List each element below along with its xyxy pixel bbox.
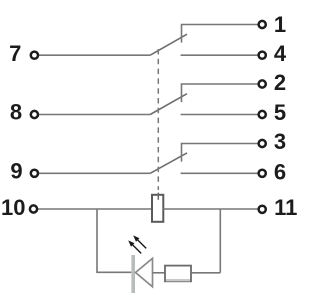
pole 1 NO bracket xyxy=(182,25,259,43)
terminal 10 circle xyxy=(30,205,37,212)
svg-text:6: 6 xyxy=(274,160,286,185)
svg-text:5: 5 xyxy=(274,100,286,125)
terminal 4 circle xyxy=(259,52,266,59)
coil K1 xyxy=(152,195,163,222)
terminal 11 circle xyxy=(259,206,266,213)
pole 3 common wire from terminal 9 xyxy=(39,172,150,174)
pole 1 NC wire to terminal 4 xyxy=(181,54,258,56)
svg-text:2: 2 xyxy=(274,70,286,95)
svg-text:1: 1 xyxy=(274,12,286,37)
svg-text:8: 8 xyxy=(10,100,22,125)
coil wire to terminal 11 xyxy=(163,208,257,210)
terminal 9 circle xyxy=(31,170,38,177)
svg-text:4: 4 xyxy=(274,41,287,66)
svg-text:10: 10 xyxy=(1,195,25,220)
terminal 8 circle xyxy=(31,111,38,118)
resistor R1 xyxy=(165,266,191,282)
LED triangle D1 xyxy=(136,258,153,287)
terminal 7 circle xyxy=(31,52,38,59)
mechanical link tick into coil xyxy=(157,193,159,200)
svg-text:7: 7 xyxy=(9,41,21,66)
pole 3 NO bracket xyxy=(182,144,259,162)
pole 2 NO bracket xyxy=(182,84,259,102)
LED emission arrow 2 xyxy=(133,235,146,248)
terminal 3 circle xyxy=(259,140,266,147)
terminal 1 circle xyxy=(259,21,266,28)
left branch wire down xyxy=(97,209,131,272)
pole 3 NC wire to terminal 6 xyxy=(181,172,258,174)
terminal 2 circle xyxy=(259,80,266,87)
pole 2 NC wire to terminal 5 xyxy=(181,114,258,116)
coil wire from terminal 10 xyxy=(38,208,152,210)
terminal 6 circle xyxy=(259,170,266,177)
wire LED to resistor xyxy=(153,272,166,274)
pole 2 common wire from terminal 8 xyxy=(39,114,150,116)
svg-text:9: 9 xyxy=(10,158,22,183)
svg-text:3: 3 xyxy=(274,129,286,154)
pole 1 switch arm xyxy=(150,34,187,55)
mechanical link dashed line xyxy=(157,49,159,190)
pole 2 switch arm xyxy=(150,94,187,115)
pole 3 switch arm xyxy=(150,153,187,173)
LED cathode bar xyxy=(131,255,135,293)
pole 1 common wire from terminal 7 xyxy=(39,54,150,56)
svg-text:11: 11 xyxy=(274,195,297,220)
wire resistor to right branch xyxy=(191,272,220,274)
LED emission arrow 1 xyxy=(128,240,141,253)
terminal 5 circle xyxy=(259,111,266,118)
right branch wire up xyxy=(219,209,221,273)
